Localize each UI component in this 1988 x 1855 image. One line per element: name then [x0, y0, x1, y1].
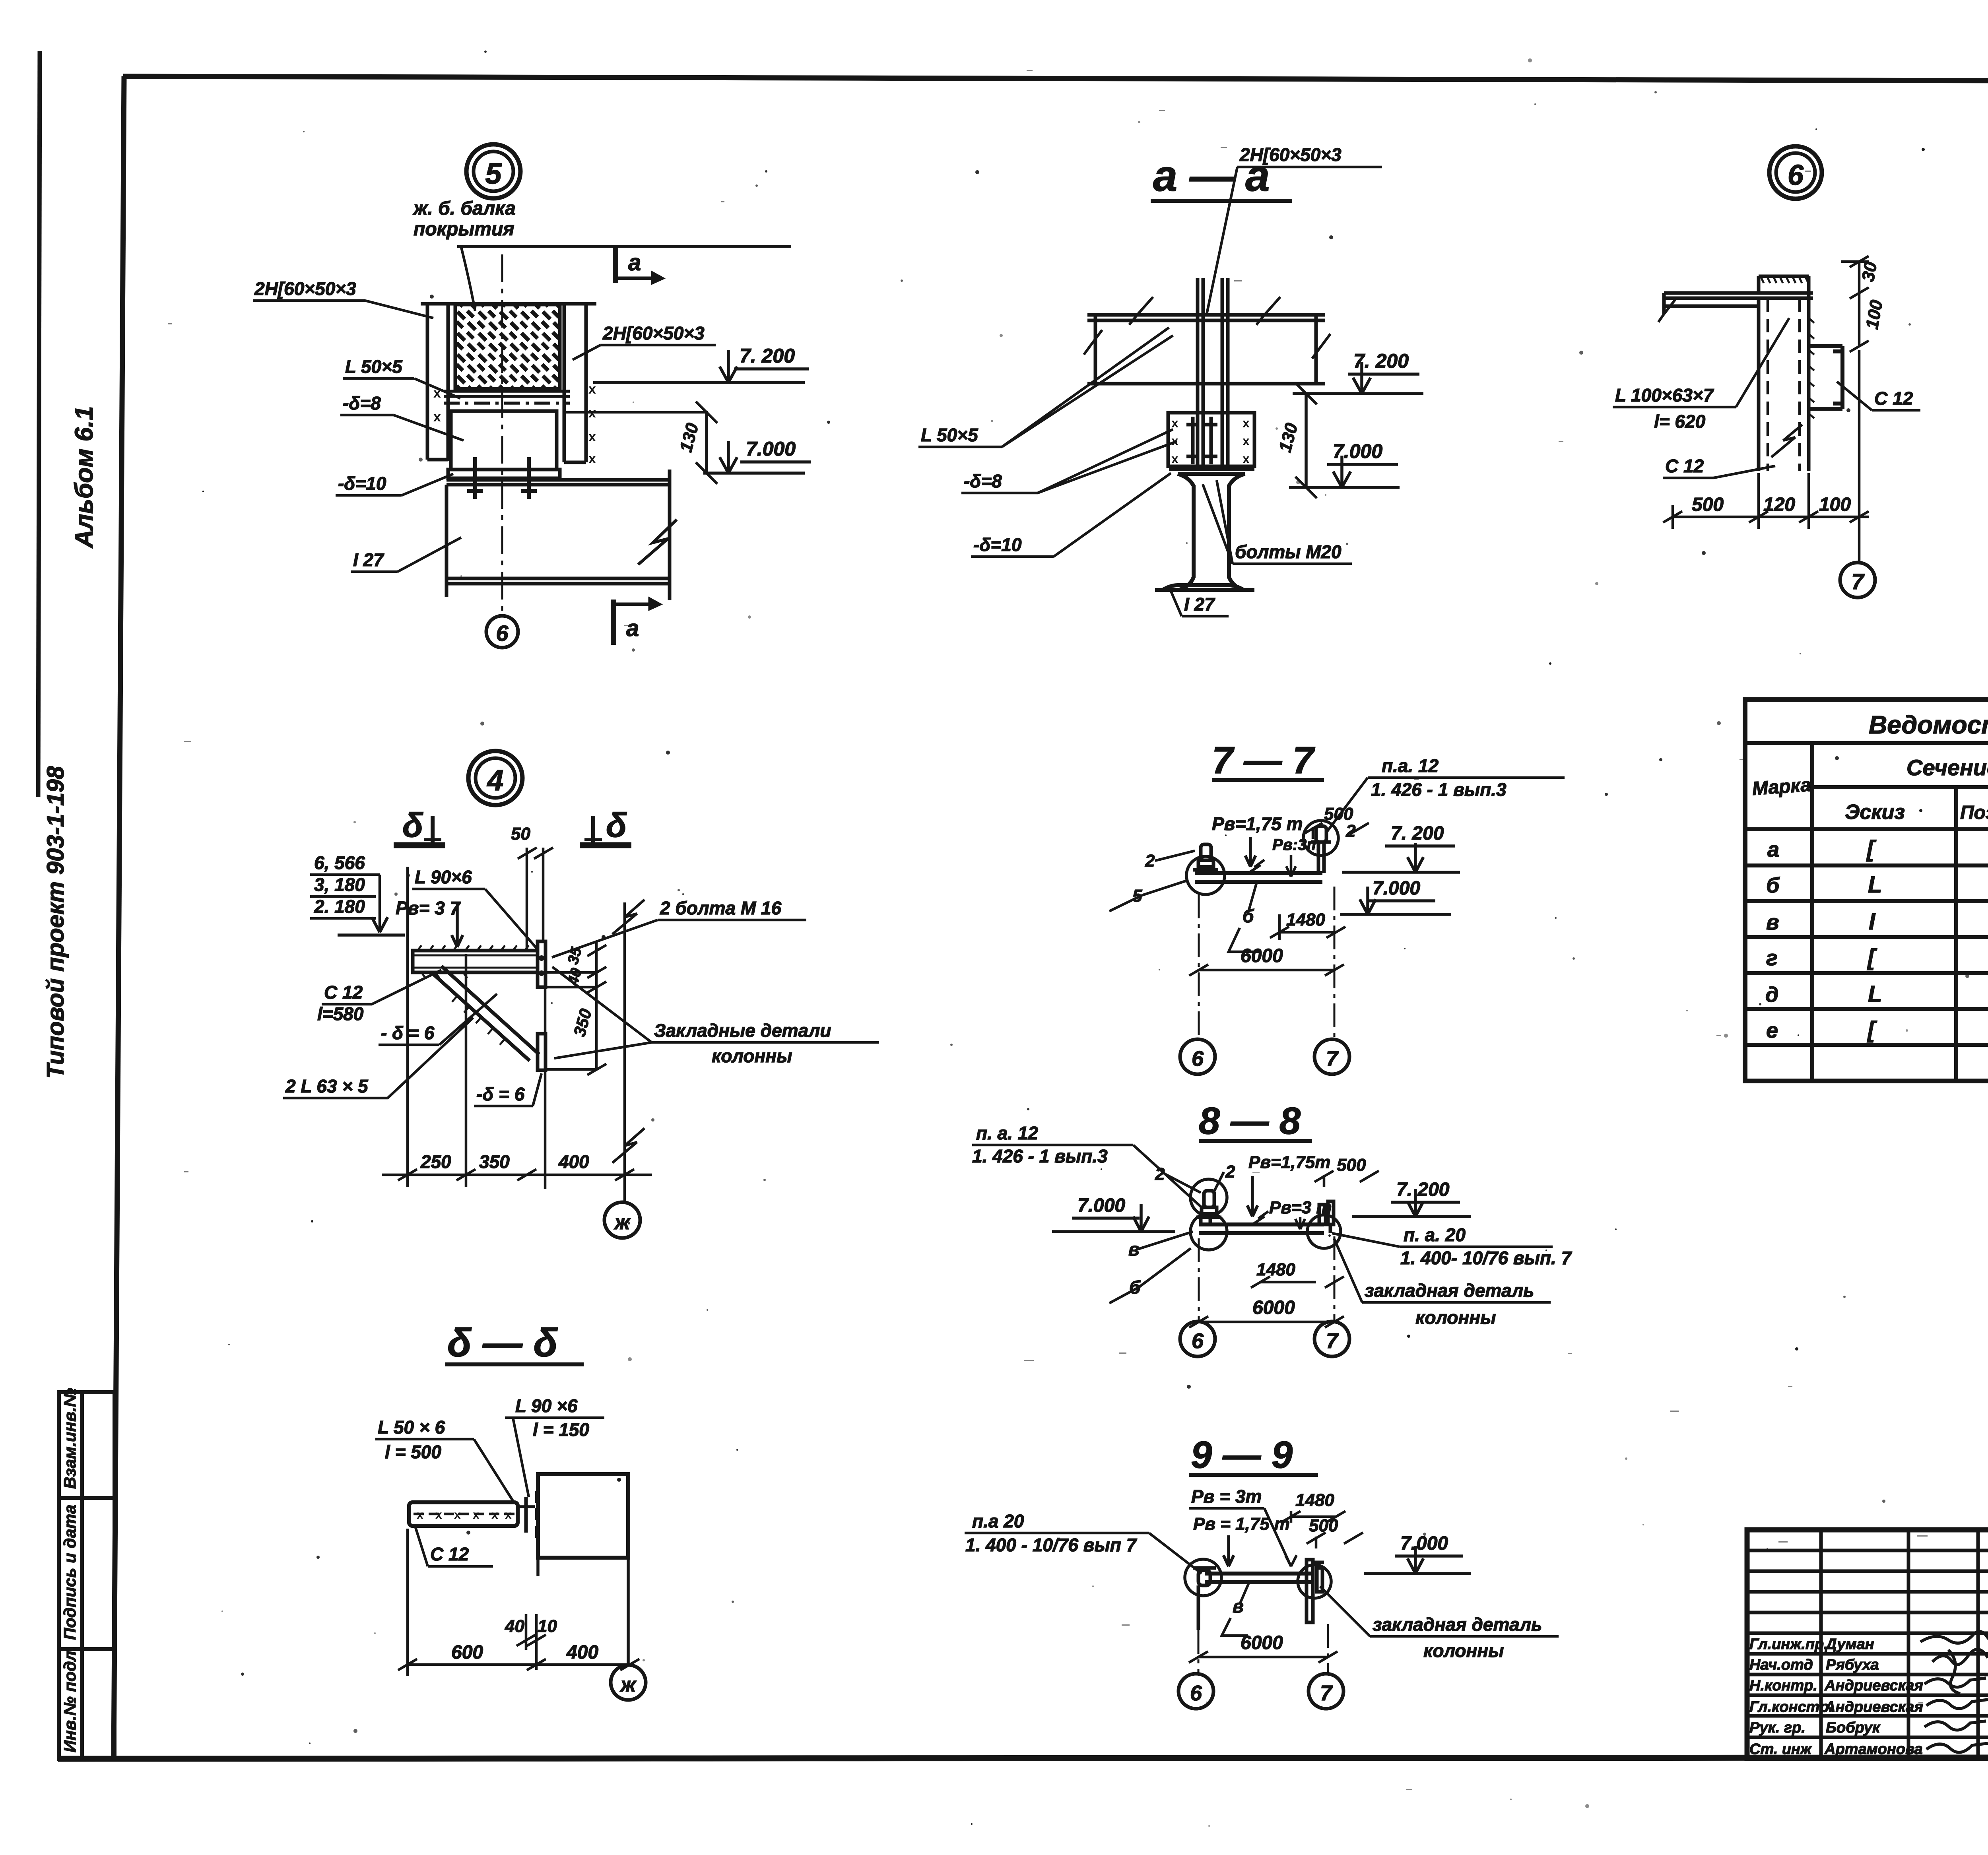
svg-text:1. 426 - 1 вып.3: 1. 426 - 1 вып.3 — [972, 1146, 1108, 1166]
svg-text:x: x — [1242, 416, 1250, 430]
svg-text:6: 6 — [1192, 1047, 1204, 1071]
svg-text:закладная деталь: закладная деталь — [1365, 1280, 1534, 1301]
svg-text:7. 200: 7. 200 — [1391, 823, 1444, 844]
axis circle 7 — [1840, 563, 1875, 598]
bolts inside block — [1186, 417, 1217, 464]
svg-text:l = 150: l = 150 — [533, 1419, 589, 1440]
svg-text:6000: 6000 — [1241, 1632, 1283, 1653]
svg-text:2: 2 — [1345, 821, 1356, 841]
svg-text:Андриевская: Андриевская — [1824, 1677, 1923, 1694]
svg-text:ж. б. балка: ж. б. балка — [412, 198, 516, 219]
svg-text:500: 500 — [1337, 1155, 1366, 1175]
svg-text:6: 6 — [1192, 1329, 1204, 1353]
slab top lines — [1658, 293, 1813, 322]
svg-text:35: 35 — [565, 945, 585, 966]
svg-text:L 50 × 6: L 50 × 6 — [378, 1417, 445, 1438]
svg-text:L 100×63×7: L 100×63×7 — [1615, 385, 1714, 406]
svg-text:6000: 6000 — [1241, 945, 1283, 966]
left support — [1193, 1568, 1216, 1630]
slab outline — [1084, 297, 1330, 384]
svg-text:2 болта М 16: 2 болта М 16 — [660, 898, 782, 918]
svg-text:x: x — [588, 429, 596, 444]
svg-text:7.000: 7.000 — [1400, 1533, 1448, 1554]
svg-text:-δ=8: -δ=8 — [964, 471, 1002, 491]
svg-text:2 L 63 × 5: 2 L 63 × 5 — [285, 1076, 369, 1096]
elements list table grid — [1745, 700, 1988, 1081]
svg-text:400: 400 — [558, 1151, 589, 1172]
svg-text:40: 40 — [565, 966, 585, 988]
dim 100 right — [1858, 293, 1861, 346]
svg-text:250: 250 — [420, 1151, 451, 1172]
svg-text:в: в — [1128, 1239, 1140, 1259]
detail 4 bubble — [468, 751, 522, 805]
svg-text:7. 200: 7. 200 — [740, 345, 795, 367]
svg-text:а: а — [626, 615, 639, 641]
svg-text:7: 7 — [1320, 1681, 1333, 1705]
svg-text:7: 7 — [1326, 1329, 1339, 1353]
svg-text:l= 620: l= 620 — [1654, 411, 1706, 432]
svg-text:д: д — [1765, 983, 1778, 1007]
svg-text:Эскиз: Эскиз — [1845, 801, 1905, 824]
svg-text:30: 30 — [1858, 260, 1881, 283]
bottom-left mini table — [59, 1392, 115, 1759]
svg-text:-δ = 6: -δ = 6 — [476, 1084, 525, 1104]
svg-text:7.000: 7.000 — [1373, 878, 1420, 899]
svg-text:40: 40 — [505, 1616, 524, 1636]
concrete beam hatched — [455, 305, 560, 389]
svg-text:-δ=10: -δ=10 — [973, 534, 1022, 555]
svg-text:в: в — [1766, 910, 1779, 934]
svg-text:50: 50 — [511, 824, 530, 844]
dim 130 — [1305, 394, 1308, 487]
svg-text:L 90 ×6: L 90 ×6 — [515, 1395, 578, 1416]
svg-text:600: 600 — [451, 1642, 483, 1663]
bottom plate -b=10 — [448, 470, 560, 478]
svg-text:[: [ — [1867, 945, 1877, 970]
diagonal brace — [431, 966, 539, 1061]
svg-text:x: x — [1171, 416, 1178, 430]
left thin rows — [1747, 1549, 1988, 1552]
svg-text:Инв.№ подл.: Инв.№ подл. — [60, 1646, 79, 1752]
axis circle 6 — [486, 616, 518, 648]
svg-text:Рябуха: Рябуха — [1826, 1657, 1879, 1673]
svg-text:l=580: l=580 — [317, 1003, 364, 1024]
svg-text:7: 7 — [1326, 1047, 1339, 1071]
svg-text:колонны: колонны — [712, 1046, 792, 1066]
channel plate horizontal — [409, 1502, 518, 1526]
svg-text:Ст. инж: Ст. инж — [1749, 1741, 1812, 1758]
svg-text:L 50×5: L 50×5 — [921, 425, 978, 445]
svg-text:покрытия: покрытия — [414, 219, 514, 240]
svg-text:1480: 1480 — [1256, 1260, 1295, 1279]
svg-text:Альбом 6.1: Альбом 6.1 — [70, 406, 98, 549]
grid circles — [1180, 1039, 1215, 1074]
svg-text:С 12: С 12 — [430, 1544, 469, 1564]
svg-text:130: 130 — [676, 421, 702, 454]
svg-text:Взам.инв.№: Взам.инв.№ — [60, 1388, 79, 1489]
svg-text:С 12: С 12 — [324, 982, 363, 1003]
outer channels 2N[60x50x3 — [421, 304, 596, 462]
svg-text:[: [ — [1866, 836, 1877, 862]
svg-text:С 12: С 12 — [1665, 456, 1704, 476]
axes — [1198, 1630, 1200, 1672]
svg-text:I: I — [1869, 909, 1876, 935]
svg-text:ж: ж — [619, 1673, 637, 1696]
svg-text:1. 400 - 10/76 вып 7: 1. 400 - 10/76 вып 7 — [965, 1535, 1138, 1555]
center axis — [501, 254, 503, 616]
svg-text:10: 10 — [538, 1616, 557, 1636]
svg-text:Сечение: Сечение — [1906, 755, 1988, 780]
svg-text:Артамонова: Артамонова — [1824, 1741, 1923, 1758]
svg-text:закладная деталь: закладная деталь — [1373, 1614, 1542, 1635]
svg-text:2Н[60×50×3: 2Н[60×50×3 — [254, 278, 356, 299]
svg-text:x: x — [1242, 434, 1250, 448]
svg-text:7: 7 — [1851, 569, 1865, 594]
svg-text:7.000: 7.000 — [1333, 440, 1382, 462]
vertical dims right — [546, 941, 606, 1075]
svg-text:x: x — [1171, 452, 1178, 466]
svg-text:x: x — [433, 409, 441, 425]
bolt block — [1168, 413, 1254, 466]
bolts through plate — [467, 457, 537, 499]
svg-text:Рв = 3m: Рв = 3m — [1191, 1486, 1262, 1507]
svg-text:п.а. 12: п.а. 12 — [1382, 755, 1439, 776]
svg-text:2Н[60×50×3: 2Н[60×50×3 — [1239, 144, 1342, 165]
svg-text:Андриевская: Андриевская — [1824, 1699, 1923, 1715]
svg-text:Типовой проект 903-1-198: Типовой проект 903-1-198 — [42, 766, 69, 1079]
right support — [1311, 826, 1331, 873]
svg-text:x: x — [588, 406, 596, 421]
svg-text:Гл.инж.пр.: Гл.инж.пр. — [1749, 1636, 1828, 1653]
svg-text:7. 200: 7. 200 — [1396, 1179, 1450, 1200]
section mark a (bottom) — [613, 600, 659, 645]
grid circles — [1180, 1321, 1215, 1356]
column — [538, 1474, 628, 1665]
svg-text:6: 6 — [1788, 159, 1804, 191]
svg-text:1. 426 - 1 вып.3: 1. 426 - 1 вып.3 — [1371, 779, 1507, 800]
svg-text:I 27: I 27 — [353, 549, 384, 570]
svg-text:I 27: I 27 — [1184, 594, 1215, 615]
svg-text:L: L — [1868, 872, 1882, 898]
svg-text:2Н[60×50×3: 2Н[60×50×3 — [602, 323, 705, 343]
section mark a (top) — [615, 246, 662, 283]
bottom dims 500 120 100 — [1663, 350, 1869, 563]
svg-text:100: 100 — [1862, 298, 1887, 330]
svg-text:Рв=1,75т: Рв=1,75т — [1248, 1153, 1330, 1172]
svg-text:6: 6 — [1190, 1681, 1202, 1705]
right support — [1319, 1201, 1334, 1233]
svg-text:б: б — [1766, 873, 1780, 897]
C12 bracket channel — [1809, 346, 1842, 409]
border left — [114, 76, 124, 1759]
svg-text:350: 350 — [479, 1151, 510, 1172]
I-beam section below — [1155, 469, 1254, 590]
leader under label — [457, 246, 791, 311]
svg-text:100: 100 — [1819, 494, 1851, 515]
border bottom — [58, 1757, 1988, 1759]
beam channel — [1205, 1574, 1312, 1582]
svg-text:Гл.констр.: Гл.констр. — [1749, 1699, 1833, 1715]
svg-text:7 — 7: 7 — 7 — [1212, 739, 1316, 782]
beam channel — [1199, 1211, 1324, 1233]
right support — [1307, 1560, 1324, 1622]
svg-text:2. 180: 2. 180 — [314, 896, 365, 917]
svg-text:Нач.отд: Нач.отд — [1749, 1657, 1813, 1673]
left columns verticals — [1747, 1530, 1988, 1758]
column axis — [623, 902, 626, 1201]
svg-text:-δ=8: -δ=8 — [343, 393, 381, 413]
column above slab — [1759, 276, 1809, 293]
left support bolt assembly — [1196, 1191, 1221, 1224]
svg-text:120: 120 — [1763, 494, 1795, 515]
svg-text:δ — δ: δ — δ — [447, 1321, 558, 1365]
page left edge line — [38, 51, 40, 797]
angle connecting — [524, 1497, 528, 1533]
svg-text:130: 130 — [1275, 421, 1301, 454]
title block outer — [1747, 1530, 1988, 1758]
svg-text:8 — 8: 8 — 8 — [1199, 1100, 1301, 1142]
svg-text:колонны: колонны — [1415, 1307, 1496, 1328]
svg-text:Подпись и дата: Подпись и дата — [60, 1505, 79, 1640]
svg-text:7.000: 7.000 — [746, 438, 796, 460]
dim 30 — [1858, 262, 1861, 293]
svg-text:Думан: Думан — [1825, 1636, 1874, 1653]
svg-text:1480: 1480 — [1295, 1490, 1334, 1510]
beam channel — [1195, 860, 1322, 882]
svg-text:п.а 20: п.а 20 — [972, 1511, 1024, 1531]
svg-text:2: 2 — [1145, 851, 1155, 871]
bottom plate of brace — [538, 1034, 546, 1070]
svg-text:6: 6 — [496, 621, 509, 646]
svg-text:п. а. 12: п. а. 12 — [976, 1123, 1038, 1143]
svg-text:400: 400 — [566, 1642, 598, 1663]
border top — [123, 76, 1988, 82]
svg-text:2: 2 — [1155, 1164, 1165, 1184]
svg-text:350: 350 — [570, 1007, 595, 1038]
svg-text:6000: 6000 — [1252, 1297, 1295, 1318]
svg-text:L 90×6: L 90×6 — [415, 867, 472, 887]
svg-text:Н.контр.: Н.контр. — [1749, 1677, 1817, 1694]
end plate — [538, 941, 546, 987]
svg-text:7.000: 7.000 — [1077, 1195, 1125, 1216]
svg-text:6, 566: 6, 566 — [314, 852, 365, 873]
svg-text:[: [ — [1867, 1017, 1877, 1043]
axis circle zh — [611, 1665, 646, 1700]
svg-text:4: 4 — [486, 764, 503, 797]
svg-text:Марка: Марка — [1751, 774, 1812, 799]
axes — [1198, 1238, 1200, 1321]
weld x marks — [433, 382, 596, 466]
svg-text:l = 500: l = 500 — [385, 1442, 441, 1462]
detail 6 bubble — [1769, 146, 1822, 199]
svg-text:3, 180: 3, 180 — [314, 874, 365, 895]
svg-text:δ: δ — [606, 806, 627, 844]
svg-text:Рук. гр.: Рук. гр. — [1749, 1719, 1806, 1736]
svg-text:е: е — [1766, 1019, 1778, 1042]
svg-text:п. а. 20: п. а. 20 — [1404, 1224, 1466, 1245]
svg-text:Рв=1,75 m: Рв=1,75 m — [1212, 813, 1303, 834]
svg-text:x: x — [588, 451, 596, 466]
signature rows labels — [1749, 1636, 1923, 1758]
plate L50x5 under beam — [444, 391, 570, 403]
grid circles — [1178, 1674, 1213, 1709]
svg-text:Ведомость элементов на л.: Ведомость элементов на л. КМ-9 и КМ-10 — [1869, 710, 1988, 739]
axes — [1198, 895, 1200, 1037]
svg-text:L: L — [1868, 981, 1882, 1007]
svg-text:а: а — [1767, 838, 1779, 862]
svg-text:Бобрук: Бобрук — [1826, 1719, 1881, 1736]
svg-text:колонны: колонны — [1423, 1640, 1504, 1661]
column face line — [544, 941, 547, 1189]
column body — [1759, 293, 1809, 471]
hanging channels — [1198, 278, 1228, 466]
svg-text:x: x — [1242, 452, 1250, 466]
svg-text:5: 5 — [485, 157, 502, 190]
svg-text:Рв= 3 7: Рв= 3 7 — [396, 898, 461, 918]
I-beam I27 side view — [447, 470, 677, 600]
svg-text:Закладные детали: Закладные детали — [654, 1020, 831, 1041]
svg-text:1480: 1480 — [1286, 910, 1325, 929]
detail 5 bubble — [466, 144, 520, 198]
svg-text:Поз.: Поз. — [1960, 802, 1988, 823]
svg-text:9 — 9: 9 — 9 — [1191, 1434, 1293, 1476]
signatures squiggles — [1920, 1632, 1988, 1752]
bottom dims 250 350 400 — [382, 867, 652, 1187]
svg-text:С 12: С 12 — [1874, 388, 1913, 409]
svg-text:500: 500 — [1692, 494, 1724, 515]
bracket channel horizontal — [413, 951, 538, 972]
svg-text:болты М20: болты М20 — [1235, 541, 1342, 562]
svg-text:-δ=10: -δ=10 — [338, 473, 386, 494]
left support bolt — [1193, 844, 1218, 870]
svg-text:Рв = 1,75 т: Рв = 1,75 т — [1193, 1514, 1290, 1534]
svg-text:г: г — [1766, 946, 1778, 970]
weld ticks on column right — [1809, 318, 1814, 418]
svg-text:2: 2 — [1225, 1162, 1235, 1182]
svg-text:δ: δ — [402, 806, 423, 844]
lower channel box — [451, 411, 708, 470]
svg-text:а: а — [628, 250, 641, 276]
dim 130 — [705, 412, 708, 473]
svg-text:L 50×5: L 50×5 — [345, 356, 403, 377]
axis circle zh — [604, 1202, 640, 1238]
